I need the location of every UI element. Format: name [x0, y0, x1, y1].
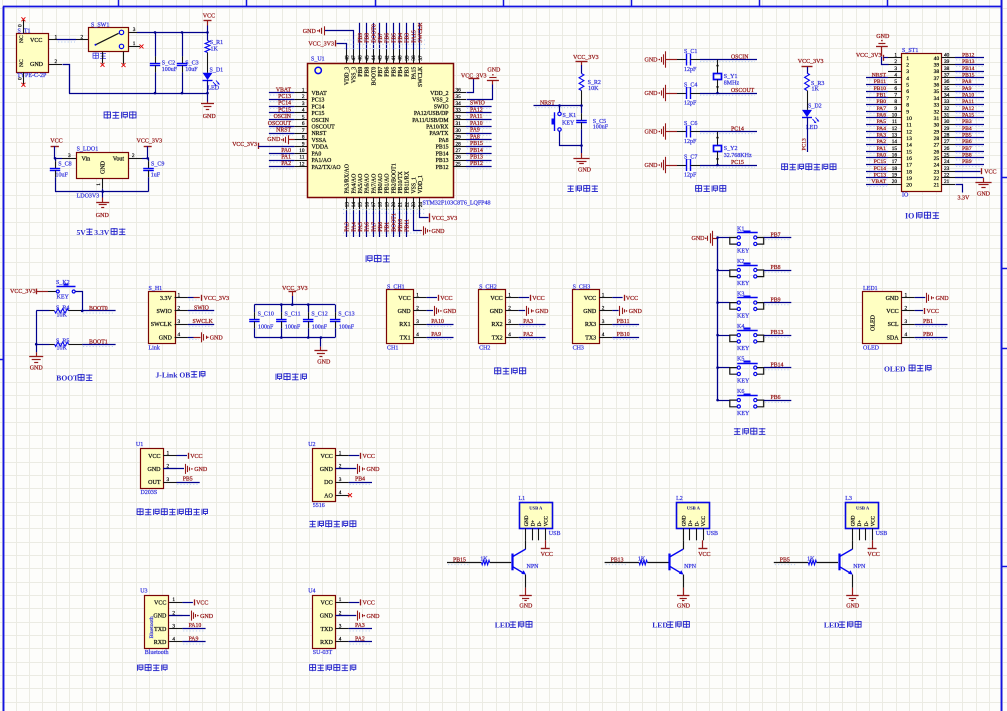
svg-text:12pF: 12pF [684, 100, 697, 106]
svg-text:GND: GND [629, 309, 643, 315]
svg-text:PB1: PB1 [923, 319, 933, 325]
LED S_D2 [802, 104, 822, 131]
wire T1 GND pin2 to bottom rail [49, 59, 70, 93]
connector S_CH3 [573, 285, 613, 352]
svg-text:PB12: PB12 [962, 53, 975, 59]
svg-text:1K: 1K [480, 556, 488, 562]
svg-text:26: 26 [934, 149, 940, 155]
ground GND at U1 pin 2 [163, 464, 208, 474]
svg-text:5516: 5516 [313, 503, 325, 509]
wire PB13 net [764, 330, 792, 337]
svg-text:S_C3: S_C3 [185, 60, 198, 66]
svg-text:100nF: 100nF [258, 325, 274, 331]
svg-text:27: 27 [944, 139, 950, 145]
svg-text:Bluetooth: Bluetooth [145, 650, 169, 656]
ground GND (L1 emitter) [519, 575, 533, 610]
right pins of S_ST1 [941, 53, 955, 186]
svg-text:SWCLK: SWCLK [418, 66, 424, 87]
header S_H1 (J-Link OB) [149, 286, 188, 351]
svg-text:NRST: NRST [540, 100, 555, 106]
title IO拓展口 [905, 211, 939, 220]
svg-text:PA8: PA8 [439, 138, 449, 144]
svg-text:32: 32 [934, 109, 940, 115]
svg-text:PA15: PA15 [411, 30, 417, 43]
svg-text:RXD: RXD [320, 640, 333, 646]
svg-text:32: 32 [456, 114, 462, 120]
capacitor S_C2 [150, 32, 178, 93]
pushbutton S_K1 [552, 106, 577, 132]
svg-text:PA7: PA7 [371, 222, 377, 232]
svg-text:NPN: NPN [527, 564, 540, 570]
svg-text:GND: GND [692, 236, 706, 242]
svg-text:23: 23 [934, 169, 940, 175]
svg-text:VBAT: VBAT [312, 91, 328, 97]
svg-text:6: 6 [894, 86, 897, 92]
svg-text:OSCOUT: OSCOUT [268, 121, 292, 127]
svg-text:VCC_3V3: VCC_3V3 [204, 296, 230, 302]
power port VCC at S_CH3 [612, 295, 638, 302]
wire SW1 pin3 to VCC rail [129, 27, 208, 33]
svg-text:PA10: PA10 [431, 319, 444, 325]
svg-text:GND: GND [267, 137, 281, 143]
connector L2 (USB-A) [676, 496, 718, 540]
svg-text:38: 38 [944, 66, 950, 72]
wire filter top rail [254, 303, 335, 306]
svg-text:PB3: PB3 [405, 33, 411, 43]
svg-text:VCC: VCC [886, 309, 898, 315]
svg-text:38: 38 [411, 55, 417, 61]
svg-text:1: 1 [339, 597, 342, 603]
wire PB0 net (SDA) [915, 332, 948, 340]
svg-text:1: 1 [508, 293, 511, 299]
wire T1 VCC pin1 to SW1 pin2 [49, 34, 89, 42]
svg-text:PA10: PA10 [470, 121, 483, 127]
svg-text:28: 28 [934, 136, 940, 142]
svg-text:35: 35 [456, 94, 462, 100]
svg-text:GND: GND [443, 309, 457, 315]
svg-text:NRST: NRST [276, 128, 291, 134]
svg-text:PA9: PA9 [431, 332, 441, 338]
svg-text:34: 34 [456, 101, 462, 107]
svg-text:K1: K1 [737, 227, 744, 233]
power port VCC at L2 [698, 540, 710, 558]
svg-text:Link: Link [149, 345, 160, 351]
capacitor S_C4 [677, 83, 700, 107]
svg-text:IO: IO [902, 193, 909, 199]
pushbutton K1 [716, 227, 763, 255]
svg-text:TX1: TX1 [400, 335, 411, 341]
svg-text:VSSA: VSSA [312, 138, 328, 144]
svg-text:16: 16 [892, 153, 898, 159]
svg-text:PB15: PB15 [453, 558, 466, 564]
svg-text:BOOT: BOOT [56, 374, 78, 383]
svg-text:4: 4 [906, 76, 909, 82]
wire K2 to BOOT0 net [76, 292, 83, 311]
svg-text:16: 16 [906, 156, 912, 162]
svg-text:PB0: PB0 [923, 332, 933, 338]
svg-text:36: 36 [934, 83, 940, 89]
wire LDO Vout to VCC_3V3 [129, 153, 149, 160]
svg-text:VCC: VCC [363, 601, 375, 607]
pushbutton K5 [716, 357, 763, 385]
svg-text:SWCLK: SWCLK [193, 319, 214, 325]
svg-text:35: 35 [934, 89, 940, 95]
svg-text:12pF: 12pF [684, 139, 697, 145]
svg-text:1: 1 [178, 293, 181, 299]
svg-text:16: 16 [364, 202, 370, 208]
svg-text:PB1: PB1 [876, 93, 886, 99]
ground GND at S_CH3 [612, 306, 642, 316]
svg-text:13: 13 [344, 202, 350, 208]
capacitor S_C1 [677, 49, 700, 73]
svg-text:DO: DO [324, 480, 333, 486]
svg-text:10: 10 [906, 116, 912, 122]
svg-text:30: 30 [456, 128, 462, 134]
svg-text:SWIO: SWIO [470, 101, 485, 107]
power port VCC at LED1 pin 2 [915, 308, 939, 315]
title 5V转3.3V电路 [77, 228, 126, 237]
ground GND of reset block [573, 146, 591, 174]
svg-text:PA3/RX/AO: PA3/RX/AO [345, 164, 351, 193]
label 开关 (switch) [93, 53, 106, 60]
wire PA2 net at U4 pin 4 [349, 636, 372, 644]
wire PA3 net at U4 pin 3 [349, 623, 372, 631]
ground GND (L3 emitter) [846, 575, 860, 610]
svg-text:GND: GND [583, 309, 597, 315]
svg-text:7: 7 [894, 93, 897, 99]
svg-text:30: 30 [944, 119, 950, 125]
svg-text:D+: D+ [531, 520, 536, 527]
svg-text:D203S: D203S [141, 490, 158, 496]
svg-text:S_SW1: S_SW1 [91, 23, 109, 29]
svg-text:PB2/BOOT1: PB2/BOOT1 [391, 163, 397, 193]
capacitor S_C10 [249, 305, 274, 338]
svg-text:PA2: PA2 [355, 636, 365, 642]
svg-text:NRST: NRST [872, 73, 887, 79]
svg-text:S_Y2: S_Y2 [724, 146, 738, 152]
svg-text:17: 17 [906, 163, 912, 169]
svg-text:VCC_3V3: VCC_3V3 [308, 42, 334, 48]
svg-text:46: 46 [358, 55, 364, 61]
bottom pins 13-24 of U1 [344, 197, 424, 211]
svg-text:1K: 1K [807, 556, 815, 562]
left pins of S_ST1 [888, 53, 902, 186]
wire PB15 net (base drive) [447, 558, 482, 565]
svg-text:VDD_2: VDD_2 [430, 91, 448, 97]
svg-text:23: 23 [944, 166, 950, 172]
power port VCC at S_CH2 [519, 295, 545, 302]
svg-text:PA15: PA15 [411, 67, 417, 80]
wire PB4 net at U2 pin 3 [349, 477, 372, 485]
pin 1 VCC of U2 [320, 451, 348, 460]
svg-text:8: 8 [302, 135, 305, 141]
svg-text:0: 0 [18, 24, 24, 27]
svg-text:LED: LED [495, 621, 511, 630]
title LED灯电路 [495, 621, 532, 630]
svg-text:PA0: PA0 [281, 148, 291, 154]
svg-text:KEY: KEY [737, 313, 750, 319]
title LED灯电路 [652, 621, 689, 630]
svg-text:100nF: 100nF [593, 125, 609, 131]
svg-text:KEY: KEY [737, 281, 750, 287]
svg-text:GND: GND [153, 614, 167, 620]
svg-text:GND: GND [320, 614, 334, 620]
capacitor S_C9 [143, 158, 164, 191]
wire PB14 net [764, 362, 792, 369]
title 程序运行指示灯 [782, 163, 836, 170]
wire button common bus [717, 238, 719, 400]
svg-text:3: 3 [894, 66, 897, 72]
svg-text:PA12/USB/DP: PA12/USB/DP [414, 111, 449, 117]
svg-text:VDD_1: VDD_1 [418, 175, 424, 193]
title 蓝牙模块 [138, 664, 168, 671]
title 语音识别模块 [310, 664, 356, 671]
svg-text:1uF: 1uF [151, 172, 161, 178]
power port VCC_3V3 at S_ST1 pin 1 [856, 53, 888, 61]
resistor 1K (L1 base) [480, 556, 511, 564]
switch bottom stub pins with no-connect [101, 52, 126, 67]
svg-text:PB12: PB12 [436, 165, 449, 171]
resistor 1K (L2 base) [638, 556, 669, 564]
svg-text:PA2: PA2 [281, 161, 291, 167]
svg-text:K6: K6 [737, 389, 744, 395]
svg-text:4: 4 [416, 332, 419, 338]
svg-text:18: 18 [378, 202, 384, 208]
svg-text:PA6: PA6 [365, 222, 371, 232]
svg-text:S_R1: S_R1 [210, 40, 223, 46]
ground GND of filter block [314, 338, 331, 366]
transistor NPN (L1) [512, 540, 539, 574]
svg-text:14: 14 [906, 143, 912, 149]
svg-text:PA2: PA2 [523, 332, 533, 338]
svg-text:12pF: 12pF [684, 172, 697, 178]
svg-text:OSCOUT: OSCOUT [731, 88, 755, 94]
svg-text:PA4/AO: PA4/AO [351, 174, 357, 194]
svg-text:44: 44 [371, 55, 377, 61]
svg-text:10K: 10K [588, 86, 599, 92]
svg-text:PA9: PA9 [470, 128, 480, 134]
wire PA3 net [519, 319, 546, 326]
svg-text:PC15: PC15 [874, 159, 887, 165]
svg-text:PC15: PC15 [312, 111, 325, 117]
svg-text:PA3: PA3 [523, 319, 533, 325]
svg-text:USB A: USB A [529, 506, 543, 511]
svg-text:1: 1 [602, 293, 605, 299]
svg-text:PA3: PA3 [345, 222, 351, 232]
ground GND of power block [201, 93, 216, 120]
svg-text:CH1: CH1 [387, 345, 398, 351]
pin 1 VCC of U1 [148, 451, 176, 460]
title 电源电路 [104, 111, 136, 119]
svg-text:100nF: 100nF [339, 325, 355, 331]
power port VCC_3V3 (filter) [282, 286, 308, 305]
svg-text:VCC_3V3: VCC_3V3 [432, 216, 458, 222]
svg-text:U1: U1 [136, 442, 143, 448]
svg-text:PA5: PA5 [358, 222, 364, 232]
wire SWCLK net [188, 319, 214, 326]
svg-text:S_C4: S_C4 [684, 83, 697, 89]
svg-text:VSS_3: VSS_3 [351, 67, 357, 84]
power port VCC at S_ST1 pin 23 [955, 168, 997, 175]
svg-text:24: 24 [418, 202, 424, 208]
svg-text:25: 25 [934, 156, 940, 162]
svg-text:S_R4: S_R4 [56, 305, 69, 311]
svg-text:PA12: PA12 [962, 106, 974, 112]
svg-text:8: 8 [906, 103, 909, 109]
pushbutton K2 [716, 259, 763, 287]
svg-text:2: 2 [55, 59, 58, 65]
svg-text:Vout: Vout [113, 156, 125, 162]
pin 1 VCC of U4 [320, 597, 348, 606]
left net wires of U1 [268, 87, 295, 169]
title BOOT电路 [56, 374, 92, 383]
wire LDO GND pin to ground rail [55, 178, 149, 193]
svg-text:20: 20 [391, 202, 397, 208]
wire PB5 net (base drive) [774, 558, 809, 565]
svg-text:1: 1 [905, 293, 908, 299]
svg-text:PC13: PC13 [312, 98, 325, 104]
wire PB9 net [764, 297, 792, 304]
svg-text:OLED: OLED [863, 345, 880, 351]
svg-text:USB A: USB A [687, 506, 701, 511]
svg-text:PA3: PA3 [355, 623, 365, 629]
svg-text:LED: LED [207, 85, 219, 91]
svg-text:PA8: PA8 [962, 79, 972, 85]
title 按键电路 [734, 428, 766, 435]
svg-text:K5: K5 [737, 357, 744, 363]
module U3 (Bluetooth) [140, 589, 168, 656]
svg-text:27: 27 [934, 143, 940, 149]
svg-text:VCC_3V3: VCC_3V3 [798, 59, 824, 65]
svg-text:VCC: VCC [545, 515, 550, 526]
svg-text:GND: GND [936, 296, 950, 302]
svg-text:100uF: 100uF [162, 67, 178, 73]
svg-text:45: 45 [364, 55, 370, 61]
svg-text:VCC: VCC [927, 309, 939, 315]
svg-text:VCC: VCC [30, 38, 42, 44]
power port VCC_3V3 at H1 pin 1 [188, 295, 229, 302]
svg-text:USB: USB [706, 531, 718, 537]
svg-text:GND: GND [367, 614, 381, 620]
svg-text:15: 15 [358, 202, 364, 208]
svg-text:GND: GND [846, 603, 860, 609]
svg-text:PB11: PB11 [617, 319, 630, 325]
svg-text:VCC: VCC [398, 296, 410, 302]
connector S_T1 (TYPE-C-2P) [17, 28, 49, 79]
svg-text:PC14: PC14 [312, 104, 325, 110]
LED S_D1 [203, 68, 224, 94]
svg-text:KEY: KEY [737, 411, 750, 417]
wire BOOT1 net [35, 339, 116, 346]
svg-text:NC: NC [19, 35, 25, 43]
svg-text:S_C10: S_C10 [258, 312, 274, 318]
svg-text:GND: GND [876, 34, 890, 40]
svg-text:42: 42 [384, 55, 390, 61]
svg-text:36: 36 [944, 79, 950, 85]
svg-text:PA4: PA4 [877, 126, 887, 132]
ground GND (S_C1 side) [645, 51, 678, 67]
svg-text:PA11/USB/DM: PA11/USB/DM [412, 118, 448, 124]
capacitor S_C11 [276, 305, 301, 338]
ground GND at S_CH2 [519, 306, 549, 316]
power port VCC_3V3 (reset) [573, 55, 599, 74]
no connect at U2 pin 4 [348, 493, 352, 497]
transistor NPN (L3) [839, 540, 866, 574]
svg-text:SWIO: SWIO [194, 306, 209, 312]
power port VCC_3V3 at U1 pin VDD_2 [461, 74, 487, 93]
wire PA2 net [519, 332, 546, 339]
svg-text:PA8: PA8 [470, 134, 480, 140]
svg-text:VCC_3V3: VCC_3V3 [10, 289, 36, 295]
title 串口电路 [495, 367, 526, 374]
svg-text:PB7: PB7 [378, 67, 384, 77]
connector S_CH2 [479, 285, 519, 352]
ground GND of LDO block [96, 192, 110, 219]
pin 4 AO of U2 [324, 490, 349, 500]
svg-text:30: 30 [934, 123, 940, 129]
svg-text:26: 26 [456, 155, 462, 161]
svg-text:PB13: PB13 [771, 330, 784, 336]
svg-text:GND: GND [645, 91, 659, 97]
svg-text:24: 24 [934, 163, 940, 169]
wire PC15 net [700, 160, 757, 167]
svg-text:GND: GND [645, 58, 659, 64]
svg-text:VCC: VCC [320, 601, 332, 607]
svg-text:VCC: VCC [154, 601, 166, 607]
svg-text:GND: GND [148, 467, 162, 473]
wire PA9 net at U3 pin 4 [182, 636, 205, 644]
svg-text:3: 3 [508, 319, 511, 325]
svg-text:39: 39 [944, 59, 950, 65]
svg-text:GND: GND [852, 515, 857, 526]
svg-text:GND: GND [30, 62, 44, 68]
svg-text:GND: GND [645, 163, 659, 169]
svg-text:10K: 10K [57, 346, 68, 352]
svg-text:U4: U4 [308, 589, 315, 595]
svg-text:40: 40 [934, 56, 940, 62]
display LED1 (OLED) [863, 286, 915, 351]
svg-text:D+: D+ [858, 520, 863, 527]
top net wires of U1 [358, 22, 424, 50]
svg-text:37: 37 [418, 55, 424, 61]
power port VCC_3V3 (run LED) [798, 59, 824, 73]
svg-text:S_Y1: S_Y1 [724, 74, 738, 80]
power port VCC_3V3 (LDO output) [137, 139, 163, 159]
svg-text:VCC: VCC [871, 515, 876, 526]
pin 2 GND of U2 [320, 464, 349, 474]
svg-text:18: 18 [892, 166, 898, 172]
svg-text:12: 12 [299, 161, 305, 167]
svg-text:VBAT: VBAT [276, 87, 292, 93]
ground GND at U4 pin 2 [336, 611, 381, 621]
svg-text:1: 1 [133, 41, 136, 47]
svg-text:15: 15 [906, 149, 912, 155]
svg-text:OLED: OLED [871, 314, 877, 331]
svg-text:PB15: PB15 [436, 145, 449, 151]
svg-text:14: 14 [892, 139, 898, 145]
capacitor S_C12 [303, 305, 328, 338]
svg-text:VCC: VCC [363, 454, 375, 460]
svg-text:PB4: PB4 [962, 126, 972, 132]
svg-text:S_K2: S_K2 [56, 280, 70, 286]
svg-text:29: 29 [944, 126, 950, 132]
svg-text:U2: U2 [308, 442, 315, 448]
svg-text:29: 29 [456, 135, 462, 141]
pin 0 top of S_T1 (no connect) [18, 17, 26, 33]
svg-text:2: 2 [132, 153, 135, 159]
svg-text:VCC_3V3: VCC_3V3 [461, 74, 487, 80]
svg-text:3: 3 [172, 623, 175, 629]
